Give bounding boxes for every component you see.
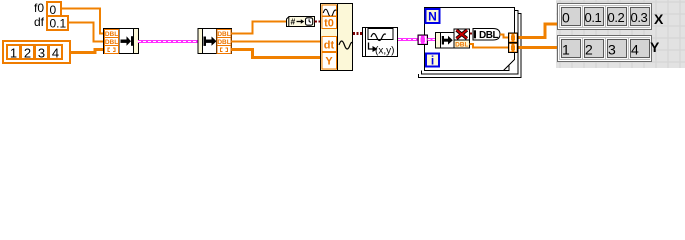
Y element 1 (560, 38, 582, 59)
array indicator Y frame (557, 35, 652, 62)
svg-text:1: 1 (562, 42, 570, 58)
numeric control df (47, 16, 68, 31)
svg-text:2: 2 (24, 46, 31, 61)
svg-text:X: X (654, 11, 664, 27)
Y element 4 (629, 38, 651, 59)
loop unbundle node (436, 33, 455, 49)
to-DBL conversion label (473, 29, 500, 41)
svg-text:DBL: DBL (217, 31, 230, 38)
Y element 2 (583, 38, 605, 59)
cluster wire to unbundle (138, 40, 198, 43)
svg-text:Y: Y (650, 39, 660, 55)
array indicator X frame (557, 3, 652, 30)
wire x to tunnel (500, 35, 509, 38)
timestamp wire to t0 (315, 20, 322, 22)
array control 1 2 3 4 (3, 41, 70, 63)
waveform to xy node (363, 28, 398, 57)
X element 0 (560, 6, 582, 27)
wire df to bundle (69, 23, 103, 42)
for loop frame (419, 8, 522, 78)
svg-text:DBL: DBL (479, 30, 498, 41)
svg-text:#: # (291, 17, 296, 27)
timestamp and DBL cells (454, 29, 470, 49)
bundle node (104, 29, 139, 54)
build waveform node (321, 4, 353, 71)
timestamp wire to DBL conversion (470, 32, 476, 34)
svg-text:0: 0 (562, 10, 570, 26)
svg-text:0.1: 0.1 (585, 10, 602, 25)
svg-text:2: 2 (585, 42, 593, 58)
svg-text:3: 3 (608, 42, 616, 58)
X element 0.1 (583, 6, 605, 27)
svg-text:df: df (34, 15, 45, 29)
svg-text:0: 0 (50, 3, 57, 17)
wire f0 to bundle (62, 9, 104, 34)
svg-text:3: 3 (38, 46, 45, 61)
svg-text:0.1: 0.1 (50, 17, 67, 31)
svg-text:Y: Y (325, 56, 333, 68)
wire y to tunnel (470, 44, 509, 48)
svg-text:1: 1 (10, 46, 17, 61)
output tunnel X (509, 33, 518, 43)
svg-text:N: N (428, 10, 437, 24)
loop dog-ear (504, 65, 510, 71)
numeric control f0 (47, 2, 61, 17)
svg-text:i: i (431, 54, 434, 68)
wire Y array (232, 50, 322, 58)
wire array to bundle (71, 50, 103, 53)
loop count N (426, 9, 440, 24)
output tunnel Y (509, 43, 518, 53)
svg-text:DBL: DBL (105, 39, 118, 46)
svg-text:DBL: DBL (455, 42, 468, 49)
cluster wire in loop (428, 38, 437, 41)
svg-text:4: 4 (52, 46, 59, 61)
wire dt (232, 41, 322, 43)
svg-text:0.2: 0.2 (608, 10, 625, 25)
waveform wire (353, 32, 363, 35)
front panel grid area (556, 0, 685, 68)
svg-text:0.3: 0.3 (631, 10, 648, 25)
wire loop to Y array (519, 46, 558, 49)
cluster array wire to loop (398, 38, 418, 41)
svg-text:DBL: DBL (105, 31, 118, 38)
unbundle node (198, 29, 232, 54)
to-timestamp conversion node (287, 17, 315, 27)
Y element 3 (606, 38, 628, 59)
X element 0.2 (606, 6, 628, 27)
iteration terminal i (426, 54, 439, 68)
X element 0.3 (629, 6, 651, 27)
svg-text:DBL: DBL (217, 39, 230, 46)
wire loop to X array (519, 24, 558, 38)
input tunnel (418, 35, 428, 45)
svg-text:dt: dt (324, 40, 335, 52)
svg-text:f0: f0 (34, 1, 44, 15)
svg-text:(x,y): (x,y) (375, 46, 394, 57)
wire t0 (232, 22, 287, 34)
svg-text:t0: t0 (324, 18, 334, 30)
svg-text:4: 4 (631, 42, 639, 58)
